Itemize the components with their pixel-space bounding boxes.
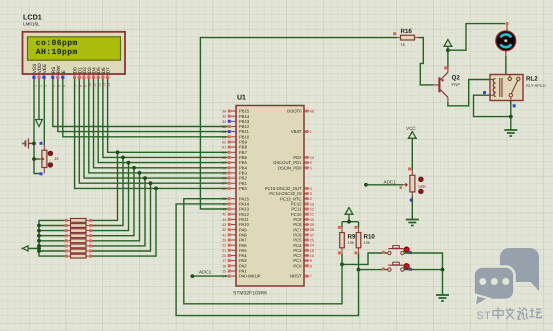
- wire PA14 to R10 node: [176, 204, 358, 316]
- node ADC1 left: [191, 274, 195, 278]
- wire VCC to emitter: [447, 50, 449, 68]
- svg-text:STM32F103R6: STM32F103R6: [233, 291, 267, 297]
- watermark logo: [474, 248, 540, 307]
- node D2 junction: [143, 176, 147, 180]
- wire relay coil pin2 to ground: [474, 95, 511, 116]
- node D7 junction: [116, 150, 120, 154]
- U1 left pins: [231, 110, 236, 112]
- svg-text:16: 16: [222, 264, 226, 268]
- svg-text:PC0: PC0: [293, 263, 302, 268]
- svg-text:6: 6: [310, 161, 312, 165]
- node bus row 3: [37, 229, 41, 233]
- svg-text:38: 38: [310, 228, 314, 232]
- node D5 junction: [127, 161, 131, 165]
- wire D6 to PB6 and resistor pack row 2: [103, 79, 228, 158]
- wire Q2 collector to relay coil pin1: [448, 80, 490, 106]
- svg-text:20: 20: [222, 254, 226, 258]
- svg-text:37: 37: [310, 233, 314, 237]
- svg-text:Q2: Q2: [452, 75, 461, 82]
- svg-text:62: 62: [222, 141, 226, 145]
- svg-text:R16: R16: [401, 28, 413, 35]
- node R9 bottom: [340, 263, 344, 267]
- svg-text:U1: U1: [237, 95, 246, 102]
- svg-text:45: 45: [222, 213, 226, 217]
- node D1 junction: [149, 181, 153, 185]
- svg-text:5: 5: [310, 166, 312, 170]
- wire relay common to ground: [510, 101, 512, 131]
- svg-text:E: E: [61, 70, 67, 73]
- resistor pack R3: [65, 229, 93, 233]
- svg-text:44: 44: [222, 218, 226, 222]
- svg-text:VEE: VEE: [42, 64, 48, 74]
- svg-text:52: 52: [310, 208, 314, 212]
- wire pot to ground: [411, 197, 413, 220]
- wire D2 to PB2 and resistor pack row 6: [84, 79, 228, 178]
- button SW2: [382, 262, 412, 271]
- svg-text:9: 9: [310, 259, 312, 263]
- input terminal arrow: [21, 246, 28, 251]
- node bus row 6: [37, 244, 41, 248]
- node VCC junction: [446, 48, 450, 52]
- svg-text:D7: D7: [106, 67, 112, 73]
- wire R16 to Q2 base: [418, 38, 433, 85]
- wire R9 to button1: [342, 253, 388, 264]
- svg-text:ADC1: ADC1: [199, 269, 212, 274]
- wire motor to relay common: [505, 56, 507, 75]
- transistor Q2: [433, 66, 448, 101]
- potentiometer RV1 1k: [40, 142, 53, 176]
- ground under buttons: [436, 295, 449, 301]
- svg-text:PB0: PB0: [239, 186, 248, 191]
- svg-text:VCC: VCC: [406, 126, 416, 131]
- button SW1: [382, 246, 412, 255]
- ground (signal) under VDD: [38, 79, 40, 120]
- wire E to PB10: [63, 79, 228, 137]
- svg-text:RL2: RL2: [526, 76, 538, 83]
- svg-text:ST: ST: [477, 310, 492, 322]
- svg-text:24: 24: [310, 244, 314, 248]
- wire button1 right to ground: [404, 253, 442, 270]
- wire VSS down: [34, 79, 42, 174]
- svg-text:51: 51: [310, 213, 314, 217]
- svg-text:co:06ppm: co:06ppm: [36, 39, 78, 48]
- svg-text:36: 36: [222, 110, 226, 114]
- wire D5 to PB5 and resistor pack row 3: [98, 79, 227, 163]
- svg-text:4: 4: [310, 187, 312, 191]
- node D0 junction: [154, 187, 158, 191]
- LCD screen: [28, 37, 121, 60]
- VCC arrow at R9/R10: [345, 208, 353, 218]
- svg-text:1k: 1k: [54, 156, 59, 161]
- node bus row 4: [37, 234, 41, 238]
- wire ADC1 to pot wiper: [366, 184, 403, 186]
- svg-text:1: 1: [310, 130, 312, 134]
- wire RS to PB12: [53, 79, 228, 127]
- ground under pot: [406, 220, 419, 226]
- svg-text:40: 40: [310, 218, 314, 222]
- svg-text:3: 3: [310, 192, 312, 196]
- node ADC1 right: [364, 183, 368, 187]
- node bus row 7: [37, 249, 41, 253]
- svg-text:10k: 10k: [348, 240, 354, 245]
- wire terminal to bus: [28, 247, 39, 249]
- potentiometer RV2 50K: [403, 171, 424, 202]
- wire PA15 to R9 node: [184, 199, 342, 304]
- svg-text:42: 42: [222, 228, 226, 232]
- wire D7 to PB7 and resistor pack row 1: [108, 79, 228, 153]
- node D4 junction: [132, 166, 136, 170]
- node wiper junction: [32, 157, 36, 161]
- resistor pack R1: [65, 219, 93, 223]
- resistor pack R5: [65, 239, 93, 243]
- svg-text:RLY-SPCO: RLY-SPCO: [526, 83, 546, 88]
- wire RW to PB11: [58, 79, 228, 132]
- svg-text:AH:10ppm: AH:10ppm: [36, 48, 78, 57]
- resistor R10: [354, 226, 360, 255]
- svg-text:PA0-WKUP: PA0-WKUP: [239, 274, 261, 279]
- resistor pack bus wire: [39, 220, 65, 256]
- svg-text:OSCIN_PD0: OSCIN_PD0: [278, 165, 302, 170]
- resistor pack R4: [65, 234, 93, 238]
- svg-text:2: 2: [310, 197, 312, 201]
- wire VCC to pot RV2: [411, 142, 413, 171]
- wire VCC to motor top: [448, 24, 505, 51]
- resistor R9: [338, 226, 344, 255]
- wire to ground: [442, 270, 444, 295]
- svg-text:7: 7: [310, 275, 312, 279]
- wire wiper to VSS column: [34, 158, 40, 160]
- svg-text:18: 18: [310, 249, 314, 253]
- svg-text:43: 43: [222, 223, 226, 227]
- node relay ground junction: [509, 115, 513, 119]
- svg-text:17: 17: [222, 259, 226, 263]
- svg-text:25: 25: [310, 239, 314, 243]
- battery cell BAT: [22, 138, 29, 148]
- node D6 junction: [121, 156, 125, 160]
- VCC arrow at pot: [408, 132, 416, 142]
- relay RL2: [490, 75, 523, 101]
- svg-text:41: 41: [222, 233, 226, 237]
- LCD pin stubs and squares: [33, 74, 35, 76]
- svg-text:22: 22: [222, 244, 226, 248]
- VCC arrow at Q2 emitter: [444, 40, 452, 50]
- op-amp U1 (MCU STM32F103R6) body: [236, 106, 304, 287]
- svg-text:VBAT: VBAT: [291, 129, 302, 134]
- svg-text:54: 54: [310, 156, 314, 160]
- svg-text:ADC1: ADC1: [384, 179, 397, 184]
- svg-text:LM016L: LM016L: [23, 22, 40, 27]
- svg-text:15: 15: [222, 270, 226, 274]
- svg-text:39: 39: [310, 223, 314, 227]
- resistor pack R2: [65, 224, 93, 228]
- wire button2 right: [404, 269, 442, 271]
- U1 right pins: [304, 110, 309, 112]
- svg-text:21: 21: [222, 249, 226, 253]
- svg-text:LCD1: LCD1: [23, 13, 42, 22]
- wire ADC1 to PA0: [192, 275, 227, 277]
- svg-text:61: 61: [222, 146, 226, 150]
- svg-text:23: 23: [222, 239, 226, 243]
- node bus row 5: [37, 239, 41, 243]
- node cell junction: [32, 142, 36, 146]
- LCD LCD1 body: [23, 32, 126, 74]
- svg-text:53: 53: [310, 202, 314, 206]
- ground under relay: [504, 130, 517, 136]
- svg-text:60: 60: [310, 110, 314, 114]
- node buttons ground junction: [441, 268, 445, 272]
- node R10 bottom: [357, 268, 361, 272]
- wire D3 to PB3 and resistor pack row 5: [89, 79, 228, 173]
- wire VEE to pot RV1: [43, 79, 45, 146]
- node VCC R9R10: [347, 220, 351, 224]
- svg-text:50K: 50K: [418, 184, 426, 189]
- svg-text:34: 34: [222, 120, 226, 124]
- svg-text:BOOT0: BOOT0: [287, 109, 302, 114]
- node bus row 2: [37, 224, 41, 228]
- wire cell to VSS column: [29, 142, 34, 144]
- wire D1 to PB1 and resistor pack row 7: [79, 79, 227, 183]
- resistor pack R6: [65, 244, 93, 248]
- svg-text:10k: 10k: [364, 240, 370, 245]
- wire D0 to PB0 and resistor pack row 8: [75, 79, 228, 189]
- wire VCC to R9 R10: [348, 218, 350, 222]
- motor/fan: [496, 25, 516, 56]
- svg-text:NRST: NRST: [290, 274, 302, 279]
- wire D4 to PB4 and resistor pack row 4: [94, 79, 228, 168]
- wire R10 to button2: [359, 253, 388, 269]
- svg-text:10: 10: [310, 254, 314, 258]
- svg-text:8: 8: [310, 264, 312, 268]
- resistor R16: [393, 32, 418, 40]
- svg-text:35: 35: [222, 115, 226, 119]
- wire PA13 to R16: [200, 38, 397, 209]
- svg-text:PNP: PNP: [452, 82, 461, 87]
- node D3 junction: [138, 171, 142, 175]
- resistor pack R7: [65, 249, 93, 253]
- resistor pack R8: [65, 254, 93, 258]
